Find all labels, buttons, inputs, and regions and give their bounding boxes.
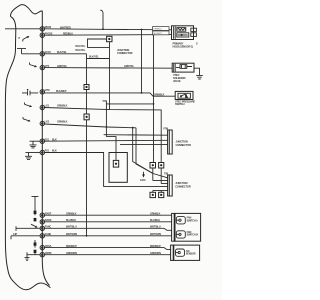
- stub above square R3: [152, 191, 154, 193]
- connector symbol 1b: [176, 231, 185, 238]
- VTEC pressure switch box: [175, 91, 193, 99]
- connector symbol 1a: [176, 217, 185, 224]
- solenoid ground wire: [194, 68, 200, 75]
- long vertical wire from square L2 to bottom band: [86, 120, 88, 236]
- box A wire pin1: [104, 134, 168, 137]
- wire row1 to sensor: [44, 29, 171, 30]
- primary HO2S sensor box: [172, 26, 194, 40]
- ground marker row8: [30, 141, 37, 148]
- ECM pin circle row7: [40, 121, 44, 125]
- switch contacts: [180, 96, 181, 97]
- svg-text:RED/WHT: RED/WHT: [150, 245, 161, 248]
- ground symbol solenoid: [196, 75, 203, 79]
- wire b1: [44, 214, 171, 216]
- bundle wire pin4: [153, 190, 168, 192]
- svg-text:VTM: VTM: [163, 127, 168, 130]
- ECM pin circle row6: [40, 105, 44, 109]
- junction connector box B: [168, 175, 173, 196]
- svg-text:WHT/RED: WHT/RED: [60, 26, 71, 29]
- bottom band squares/markers L3: [34, 242, 37, 245]
- bottom band squares/markers L1: [34, 211, 37, 214]
- ECM pin circle row8: [40, 139, 44, 143]
- ground marker row9: [25, 153, 32, 160]
- marker arrow row7: [23, 117, 30, 121]
- svg-text:14P: 14P: [13, 233, 17, 236]
- marker arrow b3: [31, 224, 37, 227]
- solenoid coil: [180, 65, 187, 69]
- ECM pin circle row2: [40, 33, 44, 37]
- junction dot wire y104 / vertical tap: [153, 103, 155, 105]
- svg-text:ORN/BLK: ORN/BLK: [154, 93, 165, 96]
- bundle wire pin1: [153, 180, 168, 182]
- junction dot bottom band: [86, 235, 88, 237]
- vertical wire from loop down to box A: [109, 42, 111, 110]
- junction square L2: [84, 114, 89, 120]
- bundle wire pin2: [161, 183, 167, 185]
- svg-text:GRN/YEL: GRN/YEL: [124, 65, 135, 68]
- svg-text:SENSOR: SENSOR: [186, 253, 196, 256]
- ground arrow mid: [143, 172, 145, 175]
- vertical tap into convergence b: [136, 128, 153, 174]
- svg-text:CONNECTOR: CONNECTOR: [176, 143, 192, 147]
- wire row9 left stub: [26, 152, 41, 154]
- svg-text:GRN/ORN: GRN/ORN: [66, 252, 77, 255]
- junction dot row7 b: [132, 127, 134, 129]
- left stub b4 with tick: [11, 236, 40, 240]
- left stub b3 with tick: [16, 226, 40, 231]
- svg-text:BLK/YEL: BLK/YEL: [89, 56, 99, 59]
- svg-text:SWITCH: SWITCH: [175, 102, 185, 106]
- svg-text:BLK/YEL: BLK/YEL: [76, 49, 86, 52]
- wire b4: [44, 235, 171, 237]
- sensor label box1: [153, 27, 170, 31]
- left stub b6 with ground: [25, 252, 41, 260]
- svg-text:HO2S (SENSOR 1): HO2S (SENSOR 1): [173, 45, 194, 49]
- ECM pin circle b5: [40, 245, 44, 249]
- ECM pin circle b3: [40, 226, 44, 230]
- sensor element box: [177, 33, 189, 37]
- junction dot row1 tap: [141, 29, 143, 31]
- ECM pin circle b2: [40, 220, 44, 224]
- junction square L1: [84, 85, 89, 90]
- svg-text:BLU/BLK: BLU/BLK: [150, 219, 160, 222]
- marker arrow row6: [25, 103, 32, 107]
- svg-text:BLK/WHT: BLK/WHT: [153, 33, 162, 35]
- wire row4 to solenoid: [44, 67, 172, 70]
- wire row8 to junction connector A: [44, 139, 167, 142]
- junction square R1: [150, 163, 156, 169]
- svg-text:GRN/BLK: GRN/BLK: [57, 121, 68, 124]
- svg-text:VALVE: VALVE: [173, 79, 181, 83]
- marker arrow row2: [23, 37, 29, 42]
- svg-text:ORN/BLU: ORN/BLU: [153, 29, 162, 31]
- wire row7: [44, 124, 136, 128]
- junction dot row1/top stub: [102, 28, 104, 30]
- wire b5: [44, 248, 170, 250]
- stub below square R1: [152, 168, 154, 181]
- svg-text:VTM: VTM: [45, 89, 50, 92]
- marker capacitor row5: [22, 91, 38, 96]
- stub below square R2: [160, 168, 162, 184]
- vertical tap wire to junction connector B: [153, 35, 155, 163]
- svg-text:WHT/BLU: WHT/BLU: [66, 226, 77, 229]
- fan box2 hatch bar: [171, 245, 174, 260]
- svg-text:RED/BLU: RED/BLU: [63, 33, 73, 36]
- svg-text:SWITCH A: SWITCH A: [187, 219, 198, 222]
- wire row6 to junction square: [44, 108, 161, 163]
- diagonal from convergence to junction B: [153, 174, 168, 178]
- wire b6: [44, 254, 170, 256]
- wire row3 left stub: [22, 53, 41, 55]
- svg-text:WHT/GRN: WHT/GRN: [66, 233, 77, 236]
- svg-text:LG2: LG2: [45, 121, 50, 124]
- wire row1 left stub: [5, 28, 40, 30]
- ECM pin circle row9: [40, 150, 44, 154]
- ECM pin circle row4: [40, 65, 44, 69]
- vertical tap wire to pressure switch: [141, 30, 143, 93]
- svg-text:BLK/YEL: BLK/YEL: [76, 45, 86, 48]
- wire row5 to pressure switch: [44, 93, 175, 96]
- ECM pin circle b1: [40, 213, 44, 217]
- svg-text:G101: G101: [140, 179, 146, 182]
- wire row9 staircase to junction connector B: [44, 153, 167, 187]
- wire y104 link: [103, 101, 154, 137]
- svg-text:GRN/YEL: GRN/YEL: [57, 65, 68, 68]
- main bus wire vertical: [42, 11, 49, 286]
- junction square C: [113, 160, 118, 167]
- vertical tap into convergence a: [133, 128, 153, 174]
- junction connector box A: [168, 130, 173, 154]
- sensor appendage boxes: [191, 28, 197, 31]
- ECM pin circle row1: [40, 27, 44, 31]
- wire b2: [44, 221, 171, 223]
- svg-text:GRN/BLK: GRN/BLK: [66, 213, 77, 216]
- wire row2 to sensor: [44, 34, 171, 37]
- fan box2: [174, 245, 200, 260]
- marker arrow row4: [30, 63, 37, 67]
- wire between squares: [86, 90, 88, 115]
- wire corner into square C: [106, 137, 116, 161]
- junction loop wire: [88, 39, 110, 47]
- svg-text:GRN/BLK: GRN/BLK: [57, 105, 68, 108]
- svg-text:WHT/GRN: WHT/GRN: [150, 233, 161, 236]
- svg-text:BLK/WHT: BLK/WHT: [56, 90, 67, 93]
- wire tee from loop: [87, 54, 110, 85]
- ECM pin circle row3: [40, 52, 44, 56]
- ECM pin circle row5: [40, 90, 44, 94]
- bottom band squares/markers L2: [34, 218, 37, 221]
- svg-text:BLU/BLK: BLU/BLK: [66, 219, 76, 222]
- junction square R2: [159, 163, 164, 169]
- sensor label box2: [153, 31, 170, 35]
- svg-text:CONNECTOR: CONNECTOR: [175, 184, 191, 188]
- svg-text:BLK: BLK: [52, 138, 57, 141]
- junction square R3: [150, 192, 156, 197]
- wire b3: [44, 228, 171, 230]
- junction square R4: [159, 192, 164, 197]
- fan box1: [175, 213, 201, 241]
- ECM torn-edge outline top arch: [10, 5, 42, 17]
- junction dot row5 tap: [141, 92, 143, 94]
- svg-text:BLK: BLK: [52, 150, 57, 153]
- stub above square R4: [160, 191, 162, 193]
- bottom band squares/markers L4: [34, 250, 37, 253]
- marker T row3: [17, 49, 26, 54]
- ECM torn-edge outline left: [5, 17, 50, 290]
- svg-text:GRN/ORN: GRN/ORN: [150, 252, 161, 255]
- svg-text:T/M: T/M: [164, 172, 168, 175]
- junction connector loop square: [107, 36, 112, 41]
- ECM pin circle b4: [40, 234, 44, 238]
- junction dot row7 a: [106, 126, 108, 128]
- svg-text:GRN/BLK: GRN/BLK: [150, 213, 161, 216]
- svg-text:WHT/BLU: WHT/BLU: [150, 226, 161, 229]
- svg-text:SWITCH B: SWITCH B: [187, 234, 199, 237]
- wire row8 left stub: [30, 140, 41, 142]
- connector symbol 2: [176, 249, 185, 256]
- ECM pin circle b6: [40, 253, 44, 257]
- wire stub to top edge: [100, 10, 103, 29]
- wire row3: [44, 53, 86, 55]
- VTEC solenoid valve box: [172, 63, 194, 72]
- fan box1 hatch bar: [172, 213, 175, 241]
- svg-text:BLK/YEL: BLK/YEL: [57, 51, 67, 54]
- heater element box: [177, 28, 186, 32]
- svg-text:CONNECTOR: CONNECTOR: [117, 51, 133, 55]
- box A wire pin3: [120, 144, 168, 146]
- junction dot row2 tap: [153, 34, 155, 36]
- box C outline: [109, 153, 127, 183]
- svg-text:RED/WHT: RED/WHT: [66, 245, 77, 248]
